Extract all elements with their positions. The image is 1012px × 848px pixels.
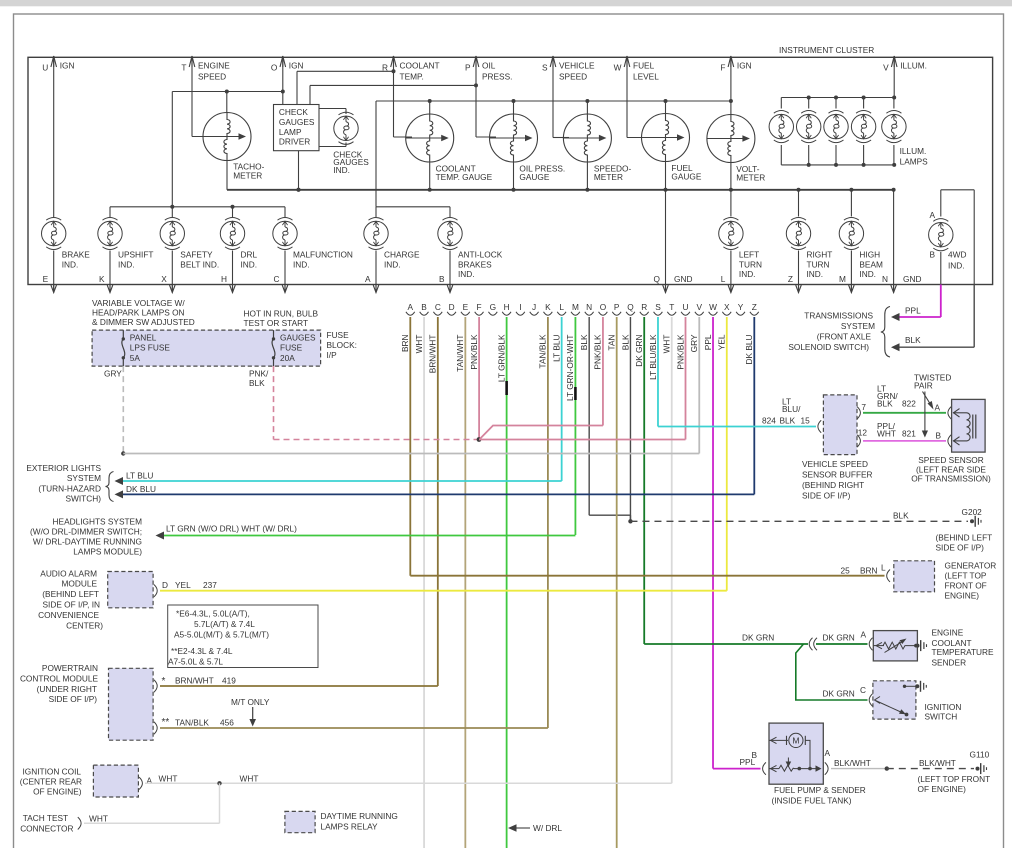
left indicator feed bus <box>110 205 285 217</box>
terminal F (IGN) top pin <box>720 56 751 75</box>
wire O IGN down to junction <box>281 75 285 94</box>
svg-text:BELT IND.: BELT IND. <box>180 259 219 269</box>
svg-text:A: A <box>860 630 866 640</box>
svg-text:A: A <box>365 274 371 284</box>
terminal Q GND <box>654 190 693 293</box>
svg-text:824: 824 <box>762 416 776 426</box>
svg-text:F: F <box>720 63 725 73</box>
terminal N GND <box>882 190 921 293</box>
svg-text:BEAM: BEAM <box>859 259 883 269</box>
engine coolant temperature sender <box>873 631 926 661</box>
svg-text:IGNITION COIL: IGNITION COIL <box>22 767 81 777</box>
label ignition coil <box>20 767 82 797</box>
svg-text:O: O <box>271 63 278 73</box>
wire TAN/BLK 456 pcm to K <box>154 717 548 734</box>
gauge oil pressure gauge <box>490 114 566 182</box>
svg-text:B: B <box>935 431 941 441</box>
svg-text:SAFETY: SAFETY <box>180 250 213 260</box>
svg-text:BRN: BRN <box>400 335 410 353</box>
svg-text:BLK: BLK <box>877 399 893 409</box>
fuse F2 GAUGES FUSE 20A <box>272 330 316 366</box>
svg-text:BRN/WHT: BRN/WHT <box>428 335 438 374</box>
wire P oil-press to driver box <box>310 75 478 137</box>
svg-text:PPL: PPL <box>905 306 921 316</box>
gauge fuel gauge <box>642 114 702 182</box>
svg-text:COOLANT: COOLANT <box>400 61 440 71</box>
svg-text:LPS FUSE: LPS FUSE <box>130 343 171 353</box>
label engine coolant temperature sender <box>932 628 995 668</box>
svg-text:WHT: WHT <box>159 774 178 784</box>
vehicle speed sensor buffer box <box>823 395 857 455</box>
svg-text:LAMPS: LAMPS <box>900 156 929 166</box>
svg-text:T: T <box>669 302 674 312</box>
wire BLK from 4wd indicator to transmissions system <box>891 285 974 352</box>
svg-text:POWERTRAIN: POWERTRAIN <box>42 663 98 673</box>
wire P to oil gauge needle <box>476 136 496 138</box>
svg-text:M: M <box>839 274 846 284</box>
svg-text:MALFUNCTION: MALFUNCTION <box>293 250 353 260</box>
svg-text:SYSTEM: SYSTEM <box>67 473 101 483</box>
svg-text:DRIVER: DRIVER <box>279 137 310 147</box>
svg-text:(BEHIND LEFT: (BEHIND LEFT <box>42 589 99 599</box>
svg-text:W: W <box>614 63 622 73</box>
svg-text:U: U <box>42 63 48 73</box>
wire V GRY <box>689 317 699 454</box>
wire DK BLU to exterior lights <box>115 484 755 498</box>
svg-text:TAN/BLK: TAN/BLK <box>538 334 548 368</box>
svg-text:SWITCH): SWITCH) <box>66 493 102 503</box>
svg-text:822: 822 <box>902 399 916 409</box>
terminal V (ILLUM.) top pin <box>883 56 927 75</box>
svg-text:W/ DRL: W/ DRL <box>533 823 562 833</box>
label tach test connector <box>20 813 73 834</box>
svg-text:G: G <box>490 302 496 312</box>
svg-text:PNK/: PNK/ <box>249 369 269 379</box>
svg-text:METER: METER <box>736 173 765 183</box>
wire 4wd lamp bottom to cluster edge <box>940 252 942 285</box>
wire WHT tach test connector <box>78 783 220 829</box>
wire W fuel-level to fuel gauge needle <box>627 75 648 138</box>
wire U PNK/BLK <box>675 317 685 440</box>
svg-text:RIGHT: RIGHT <box>807 250 833 260</box>
DRL indicator lamp and terminal H <box>220 217 244 249</box>
generator box <box>894 561 935 592</box>
svg-text:C: C <box>860 685 866 695</box>
svg-text:WHT: WHT <box>414 335 424 354</box>
svg-text:*E6-4.3L, 5.0L(A/T),: *E6-4.3L, 5.0L(A/T), <box>176 609 250 619</box>
svg-text:OIL: OIL <box>482 61 496 71</box>
wire WHT ignition coil A to T <box>139 774 672 790</box>
label hot in run note <box>244 309 319 329</box>
svg-text:OF ENGINE): OF ENGINE) <box>33 787 82 797</box>
twisted pair annotation <box>914 373 951 438</box>
svg-text:S: S <box>542 63 548 73</box>
terminal P (OIL PRESS.) top pin <box>465 56 512 82</box>
svg-text:TEST OR START: TEST OR START <box>244 318 309 328</box>
wire X YEL <box>717 317 727 591</box>
svg-text:B: B <box>929 250 935 260</box>
label headlights system <box>30 517 142 557</box>
wire LT BLU to exterior lights <box>115 471 562 486</box>
wire S vehicle-speed to speedometer needle <box>553 75 569 138</box>
svg-text:W/ DRL-DAYTIME RUNNING: W/ DRL-DAYTIME RUNNING <box>33 537 142 547</box>
svg-text:PNK/BLK: PNK/BLK <box>593 334 603 370</box>
svg-text:IND.: IND. <box>333 165 350 175</box>
wire R coolant-temp to driver box <box>297 69 396 137</box>
wire C BRN/WHT <box>428 317 438 686</box>
svg-text:ANTI-LOCK: ANTI-LOCK <box>458 250 503 260</box>
svg-text:X: X <box>161 274 167 284</box>
charge indicator lamp and terminal A <box>364 217 388 249</box>
svg-text:LT GRN (W/O DRL) WHT (W/ DRL): LT GRN (W/O DRL) WHT (W/ DRL) <box>166 524 297 534</box>
svg-text:D: D <box>449 302 455 312</box>
illumination lamp 2 <box>797 111 821 143</box>
svg-text:SIDE OF I/P): SIDE OF I/P) <box>802 491 851 501</box>
label audio alarm module <box>38 569 103 631</box>
svg-text:IGN: IGN <box>289 61 304 71</box>
svg-text:YEL: YEL <box>717 334 727 350</box>
svg-text:**E2-4.3L & 7.4L: **E2-4.3L & 7.4L <box>171 646 233 656</box>
svg-text:IND.: IND. <box>241 259 258 269</box>
svg-text:**: ** <box>162 717 170 728</box>
svg-text:WHT: WHT <box>89 813 108 823</box>
svg-text:15: 15 <box>801 416 811 426</box>
wire Z DK BLU <box>744 317 754 494</box>
svg-text:OF TRANSMISSION): OF TRANSMISSION) <box>911 473 991 483</box>
svg-text:DAYTIME RUNNING: DAYTIME RUNNING <box>321 811 398 821</box>
svg-text:N: N <box>586 302 592 312</box>
svg-text:PNK/BLK: PNK/BLK <box>469 334 479 370</box>
wire DK GRN to engine coolant temperature sender <box>644 630 872 651</box>
svg-text:WHT: WHT <box>240 774 259 784</box>
svg-text:HOT IN RUN, BULB: HOT IN RUN, BULB <box>244 309 319 319</box>
fuse block I/P box <box>92 330 321 366</box>
gauge top feed stubs <box>430 101 731 115</box>
svg-text:G110: G110 <box>970 750 990 760</box>
wire GRY from panel lps fuse <box>104 366 699 456</box>
svg-text:BLK: BLK <box>893 510 909 520</box>
fuel pump and sender <box>769 723 823 784</box>
svg-text:I: I <box>519 302 521 312</box>
svg-text:HEADLIGHTS SYSTEM: HEADLIGHTS SYSTEM <box>53 517 143 527</box>
label vehicle speed sensor buffer <box>802 459 873 501</box>
svg-text:A5-5.0L(M/T) & 5.7L(M/T): A5-5.0L(M/T) & 5.7L(M/T) <box>174 630 269 640</box>
svg-text:AUDIO ALARM: AUDIO ALARM <box>40 569 97 579</box>
svg-text:Q: Q <box>627 302 634 312</box>
svg-text:DK GRN: DK GRN <box>634 335 644 367</box>
wire driver box to ground bus <box>297 151 301 192</box>
4wd indicator feed from BLK line <box>929 190 974 285</box>
svg-text:CHARGE: CHARGE <box>384 250 420 260</box>
svg-text:& DIMMER SW ADJUSTED: & DIMMER SW ADJUSTED <box>92 317 195 327</box>
svg-text:CENTER): CENTER) <box>66 621 103 631</box>
svg-text:VARIABLE VOLTAGE W/: VARIABLE VOLTAGE W/ <box>92 298 185 308</box>
svg-text:MODULE: MODULE <box>62 579 98 589</box>
svg-text:X: X <box>724 302 730 312</box>
svg-text:IND.: IND. <box>293 259 310 269</box>
label powertrain control module <box>20 663 99 704</box>
svg-text:419: 419 <box>222 675 236 685</box>
svg-text:ILLUM.: ILLUM. <box>900 146 927 156</box>
ignition switch <box>873 681 926 719</box>
svg-text:237: 237 <box>203 580 217 590</box>
svg-text:ENGINE: ENGINE <box>932 628 964 638</box>
illumination lamp 3 <box>824 111 848 143</box>
svg-text:METER: METER <box>594 172 623 182</box>
svg-text:(UNDER RIGHT: (UNDER RIGHT <box>37 684 97 694</box>
svg-text:CONTROL MODULE: CONTROL MODULE <box>20 673 99 683</box>
svg-text:UPSHIFT: UPSHIFT <box>118 250 154 260</box>
terminal W (FUEL LEVEL) top pin <box>614 56 660 82</box>
svg-text:K: K <box>545 302 551 312</box>
svg-text:FRONT OF: FRONT OF <box>945 581 987 591</box>
svg-text:IND.: IND. <box>859 269 876 279</box>
svg-text:S: S <box>655 302 661 312</box>
wire Q BLK <box>620 317 632 524</box>
svg-text:ENGINE): ENGINE) <box>945 591 980 601</box>
safety belt indicator lamp and terminal X <box>160 217 184 249</box>
svg-text:K: K <box>99 274 105 284</box>
svg-text:INSTRUMENT CLUSTER: INSTRUMENT CLUSTER <box>779 45 874 55</box>
wire B WHT <box>414 317 424 848</box>
svg-text:SIDE OF I/P, IN: SIDE OF I/P, IN <box>43 600 100 610</box>
svg-text:(TURN-HAZARD: (TURN-HAZARD <box>38 484 101 494</box>
label speed sensor <box>911 455 991 484</box>
terminal O (IGN) top pin <box>271 56 304 75</box>
svg-text:M/T ONLY: M/T ONLY <box>231 697 270 707</box>
wire U IGN to brake indicator <box>53 75 55 217</box>
terminal T (ENGINE SPEED) top pin <box>181 56 230 82</box>
daytime running lamps relay box <box>285 811 315 832</box>
svg-text:YEL: YEL <box>175 580 191 590</box>
svg-text:CONNECTOR: CONNECTOR <box>20 824 73 834</box>
svg-text:(FRONT AXLE: (FRONT AXLE <box>817 332 872 342</box>
svg-text:EXTERIOR LIGHTS: EXTERIOR LIGHTS <box>26 463 101 473</box>
svg-text:DK BLU: DK BLU <box>126 484 156 494</box>
svg-text:SENDER: SENDER <box>932 657 967 667</box>
svg-text:BLU/: BLU/ <box>782 404 801 414</box>
terminal R (COOLANT TEMP.) top pin <box>382 56 440 82</box>
wire R DK GRN <box>634 317 644 644</box>
label transmissions system <box>788 307 890 358</box>
svg-text:TURN: TURN <box>739 259 762 269</box>
svg-text:GAUGE: GAUGE <box>519 172 549 182</box>
svg-text:IND.: IND. <box>948 261 965 271</box>
svg-text:GND: GND <box>674 274 692 284</box>
svg-text:20A: 20A <box>280 353 295 363</box>
svg-text:4WD: 4WD <box>948 250 966 260</box>
svg-text:CHECK: CHECK <box>279 107 309 117</box>
svg-text:LT BLU: LT BLU <box>551 335 561 362</box>
wire PNK/BLK from gauges fuse <box>249 366 478 439</box>
wire PNK/BLK splice to U <box>479 439 686 441</box>
label fuel pump and sender <box>772 785 866 806</box>
svg-text:E: E <box>463 302 469 312</box>
svg-text:IND.: IND. <box>118 259 135 269</box>
wire K TAN/BLK <box>538 317 548 728</box>
left turn indicator lamp and terminal L <box>719 217 743 249</box>
svg-text:IGN: IGN <box>737 61 752 71</box>
svg-text:821: 821 <box>902 429 916 439</box>
label fuse block I/P <box>327 330 357 360</box>
svg-text:BLK: BLK <box>620 334 630 350</box>
svg-text:IND.: IND. <box>62 259 79 269</box>
svg-text:LEFT: LEFT <box>739 250 759 260</box>
label illum lamps <box>900 146 929 166</box>
wire F PNK/BLK <box>469 317 479 440</box>
svg-text:BRAKE: BRAKE <box>62 250 91 260</box>
svg-text:H: H <box>221 274 227 284</box>
svg-text:IND.: IND. <box>807 269 824 279</box>
svg-text:25: 25 <box>841 566 851 576</box>
svg-text:DK GRN: DK GRN <box>823 633 855 643</box>
wires ground bus to turn/beam indicators <box>731 190 852 217</box>
svg-text:12: 12 <box>858 427 868 437</box>
wire L LT BLU <box>551 317 561 481</box>
svg-text:LT BLU/BLK: LT BLU/BLK <box>648 334 658 380</box>
malfunction indicator lamp and terminal C <box>273 217 297 249</box>
wire T WHT <box>662 317 672 783</box>
svg-text:BLK: BLK <box>780 416 796 426</box>
svg-text:IND.: IND. <box>384 259 401 269</box>
svg-text:TACH TEST: TACH TEST <box>23 813 68 823</box>
svg-text:B: B <box>751 750 757 760</box>
svg-text:GND: GND <box>903 274 921 284</box>
wire BLK to ground G202 <box>630 510 968 521</box>
svg-text:W: W <box>709 302 717 312</box>
svg-text:A7-5.0L & 5.7L: A7-5.0L & 5.7L <box>168 656 223 666</box>
svg-text:TEMPERATURE: TEMPERATURE <box>932 647 995 657</box>
svg-text:L: L <box>559 302 564 312</box>
wire BRN 25 to generator terminal L <box>410 563 890 582</box>
svg-text:A: A <box>408 302 414 312</box>
svg-text:N: N <box>882 274 888 284</box>
wire BLK/WHT fuel pump A to ground G110 <box>824 748 974 775</box>
svg-text:BRN: BRN <box>860 566 878 576</box>
wire E TAN/WHT <box>455 317 465 848</box>
wire PNK/BLK splice to O <box>480 426 603 439</box>
svg-text:DK GRN: DK GRN <box>742 633 774 643</box>
wire DK GRN branch to ignition switch <box>796 644 873 706</box>
wire R to coolant gauge needle <box>394 136 413 138</box>
brake indicator lamp and terminal E <box>42 217 66 249</box>
wire O PNK/BLK <box>593 317 603 426</box>
wire YEL 237 audio alarm terminal D to X <box>154 580 727 597</box>
gauge voltmeter <box>707 115 765 183</box>
svg-text:GRY: GRY <box>104 369 122 379</box>
svg-text:PNK/BLK: PNK/BLK <box>675 334 685 370</box>
svg-text:BRN/WHT: BRN/WHT <box>175 675 214 685</box>
svg-text:WHT: WHT <box>662 335 672 354</box>
speed sensor <box>952 399 986 452</box>
svg-text:LT GRN-OR-WHT: LT GRN-OR-WHT <box>565 335 575 402</box>
svg-text:DRL: DRL <box>241 250 258 260</box>
svg-text:TAN/WHT: TAN/WHT <box>455 335 465 372</box>
svg-text:CONVENIENCE: CONVENIENCE <box>38 610 99 620</box>
svg-text:BLK: BLK <box>579 334 589 350</box>
gauge IGN feed bus <box>376 99 733 207</box>
terminal S (VEHICLE SPEED) top pin <box>542 56 595 82</box>
svg-text:SPEED SENSOR: SPEED SENSOR <box>918 455 983 465</box>
wire O IGN branch to indicator bus <box>172 90 282 207</box>
svg-text:E: E <box>43 274 49 284</box>
svg-text:HEAD/PARK LAMPS ON: HEAD/PARK LAMPS ON <box>92 308 185 318</box>
svg-text:L: L <box>881 563 886 573</box>
junction pink splice <box>477 437 482 442</box>
ground G110 <box>918 750 991 795</box>
4wd indicator lamp <box>929 219 953 251</box>
label generator <box>945 561 997 601</box>
ignition coil box <box>93 765 138 797</box>
gauge coolant temp gauge <box>406 114 493 182</box>
svg-text:GAUGE: GAUGE <box>671 172 701 182</box>
svg-text:BLK: BLK <box>905 335 921 345</box>
svg-text:FUSE: FUSE <box>280 343 303 353</box>
svg-text:A: A <box>934 403 940 413</box>
gauge speedometer <box>563 114 631 182</box>
svg-text:Y: Y <box>738 302 744 312</box>
svg-text:FUEL PUMP & SENDER: FUEL PUMP & SENDER <box>774 785 866 795</box>
svg-text:Z: Z <box>752 302 757 312</box>
svg-text:BLK/WHT: BLK/WHT <box>834 758 871 768</box>
terminal U (IGN) top pin <box>42 56 74 75</box>
svg-text:(CENTER REAR: (CENTER REAR <box>20 777 82 787</box>
svg-text:M: M <box>792 736 799 746</box>
svg-text:G202: G202 <box>962 507 983 517</box>
powertrain control module box <box>109 668 154 740</box>
wire S LT BLU/BLK <box>648 317 658 427</box>
illumination lamp 5 <box>882 111 906 143</box>
svg-text:F: F <box>477 302 482 312</box>
svg-text:ILLUM.: ILLUM. <box>900 61 927 71</box>
wire PPL/WHT 821 buffer pin 12 to speed sensor B <box>857 421 951 447</box>
svg-text:BLK: BLK <box>249 378 265 388</box>
harness connector row A-Z <box>406 302 759 315</box>
svg-text:M: M <box>572 302 579 312</box>
instrument cluster box <box>28 45 993 285</box>
gauge tachometer <box>203 113 265 181</box>
svg-text:V: V <box>883 63 889 73</box>
svg-text:SIDE OF I/P): SIDE OF I/P) <box>936 543 985 553</box>
svg-text:SPEED: SPEED <box>559 72 587 82</box>
svg-text:PANEL: PANEL <box>130 332 157 342</box>
svg-text:SIDE OF I/P): SIDE OF I/P) <box>49 694 98 704</box>
svg-text:FUSE: FUSE <box>327 330 350 340</box>
wire BRN/WHT 419 pcm to C <box>154 675 438 692</box>
svg-text:METER: METER <box>233 170 262 180</box>
wire H LT GRN/BLK <box>496 317 506 848</box>
svg-text:7: 7 <box>861 402 866 412</box>
wire F IGN down to gauge feed bus <box>730 75 732 101</box>
svg-text:LT BLU: LT BLU <box>126 471 153 481</box>
fuse F1 PANEL LPS FUSE 5A <box>122 330 171 366</box>
svg-text:VEHICLE: VEHICLE <box>559 61 595 71</box>
W/DRL annotation on LT GRN wire <box>508 823 562 833</box>
svg-text:ENGINE: ENGINE <box>198 61 230 71</box>
svg-text:IND.: IND. <box>458 269 475 279</box>
svg-text:C: C <box>274 274 280 284</box>
svg-text:SENSOR BUFFER: SENSOR BUFFER <box>802 470 873 480</box>
svg-text:C: C <box>435 302 441 312</box>
svg-text:IND.: IND. <box>739 269 756 279</box>
svg-text:(LEFT TOP: (LEFT TOP <box>945 571 987 581</box>
svg-text:BLK/WHT: BLK/WHT <box>919 758 956 768</box>
svg-text:DK BLU: DK BLU <box>744 335 754 365</box>
anti-lock brakes indicator lamp and terminal B <box>438 217 462 249</box>
svg-text:(BEHIND LEFT: (BEHIND LEFT <box>936 533 993 543</box>
svg-text:(W/O DRL-DIMMER SWITCH;: (W/O DRL-DIMMER SWITCH; <box>30 527 142 537</box>
label daytime running lamps relay <box>321 811 398 832</box>
